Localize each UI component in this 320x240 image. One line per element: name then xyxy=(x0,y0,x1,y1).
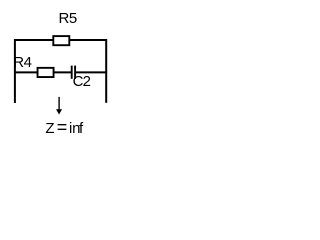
svg-text:Z: Z xyxy=(45,120,54,137)
svg-text:R5: R5 xyxy=(59,10,77,27)
wire: right vertical xyxy=(105,39,107,103)
wire: top horizontal left segment to R5 xyxy=(14,39,53,41)
wire: middle segment C2 to right vertical xyxy=(75,71,107,73)
svg-text:f: f xyxy=(79,120,84,137)
svg-text:R4: R4 xyxy=(13,54,31,71)
capacitor C2 xyxy=(72,66,75,79)
wire: top horizontal right segment from R5 xyxy=(70,39,108,41)
wire: middle horizontal left segment to R4 xyxy=(14,71,38,73)
svg-text:=: = xyxy=(57,117,68,137)
svg-text:C2: C2 xyxy=(73,73,91,90)
resistor R4 xyxy=(38,68,54,77)
resistor R5 xyxy=(53,36,69,45)
wire: left vertical xyxy=(14,39,16,103)
wire: middle segment R4 to C2 xyxy=(54,71,72,73)
arrow: impedance direction xyxy=(56,97,62,115)
